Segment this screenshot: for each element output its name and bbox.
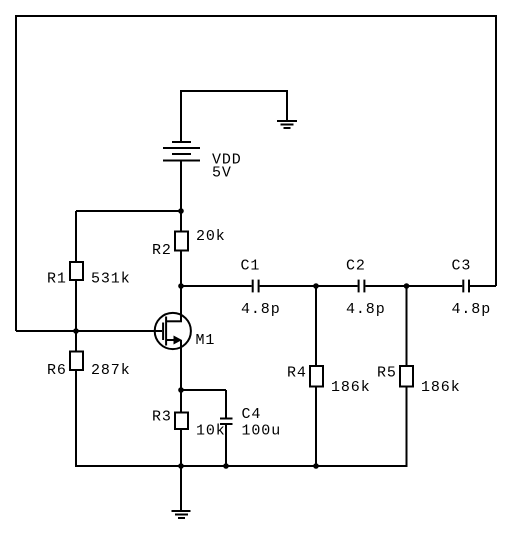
svg-text:186k: 186k [331,379,371,396]
node bottom C4 [223,463,229,469]
svg-text:M1: M1 [196,332,216,349]
wire top ground stem [286,90,288,120]
ground top [277,121,297,128]
svg-text:R1: R1 [47,271,67,288]
wire R6 top lead [75,331,77,352]
battery VDD 5V [163,142,200,161]
ground bottom [172,511,191,518]
wire node A horizontal [76,210,181,212]
resistor R1 [70,262,83,280]
wire C4 bottom lead [225,424,227,466]
wire outer left [15,15,17,331]
svg-text:531k: 531k [91,271,131,288]
node drain [178,283,184,289]
node gate [73,328,79,334]
svg-text:R3: R3 [152,409,172,426]
wire R1 top lead [75,211,77,262]
wire bottom ground stem [180,466,182,511]
wire R3 bottom lead [180,429,182,466]
svg-text:R2: R2 [152,242,172,259]
node junction VDD-R1 [178,208,184,214]
svg-text:C1: C1 [241,258,261,275]
svg-text:4.8p: 4.8p [452,301,492,318]
wire bottom rail [75,465,407,467]
resistor R5 [400,366,413,387]
wire R1 bottom lead [75,280,77,331]
wire R5 bottom lead [406,387,408,468]
capacitor C2 [359,280,365,293]
svg-text:4.8p: 4.8p [346,301,386,318]
node source [178,387,184,393]
wire R4 bottom lead [315,387,317,467]
wire battery bottom lead [180,161,182,212]
svg-text:R4: R4 [287,365,307,382]
resistor R3 [175,413,188,430]
node C2-C3 [404,283,410,289]
wire source to C4 horizontal [181,389,226,391]
capacitor C3 [463,280,469,293]
wire R3 top lead [180,390,182,413]
wire R2 bottom lead [180,251,182,287]
wire cap row segment 4 [470,285,496,287]
resistor R2 [175,232,188,251]
svg-text:C3: C3 [452,258,472,275]
wire gate row [16,330,162,332]
wire R6 bottom lead [75,370,77,467]
capacitor C1 [253,280,259,293]
svg-text:186k: 186k [421,379,461,396]
wire R2 top lead [180,211,182,232]
wire M1 source lead [180,340,182,390]
wire cap row segment 1 [181,285,252,287]
svg-text:287k: 287k [91,362,131,379]
wire cap row segment 3 [365,285,462,287]
wire VDD top horizontal [181,90,287,92]
resistor R4 [310,366,323,387]
wire outer top [15,15,497,17]
transistor M1 [155,313,191,349]
wire R4 top lead [315,286,317,366]
wire battery top lead [180,90,182,142]
node bottom R4 [313,463,319,469]
svg-text:R5: R5 [377,365,397,382]
svg-text:100u: 100u [242,423,282,440]
svg-text:20k: 20k [196,228,226,245]
svg-text:C4: C4 [242,406,262,423]
wire R5 top lead [406,286,408,366]
svg-text:R6: R6 [47,362,67,379]
svg-text:4.8p: 4.8p [241,301,281,318]
wire C4 top lead [225,390,227,419]
capacitor C4 [220,419,233,425]
resistor R6 [70,352,83,371]
svg-text:10k: 10k [196,423,226,440]
wire cap row segment 2 [260,285,358,287]
svg-text:C2: C2 [346,258,366,275]
wire M1 drain lead [180,286,182,322]
wire outer right [495,15,497,286]
svg-text:5V: 5V [212,165,232,182]
node C1-C2 [313,283,319,289]
node bottom R3 [178,463,184,469]
